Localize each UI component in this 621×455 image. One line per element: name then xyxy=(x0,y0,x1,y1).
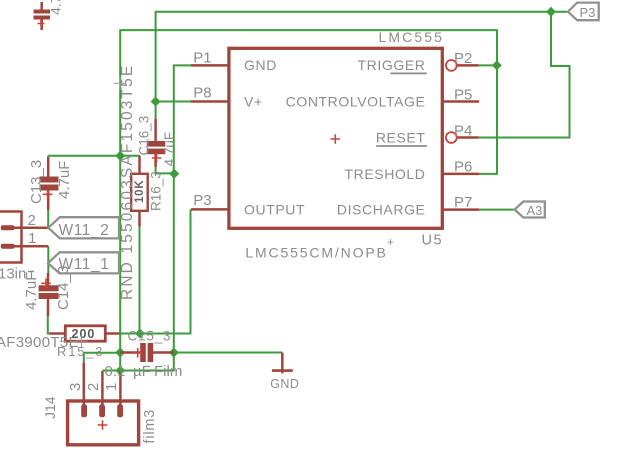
svg-text:4.7uF: 4.7uF xyxy=(56,161,73,199)
svg-text:1: 1 xyxy=(28,230,36,247)
svg-text:LMC555: LMC555 xyxy=(379,29,445,45)
svg-text:A3: A3 xyxy=(527,203,543,218)
svg-text:200: 200 xyxy=(72,327,96,341)
svg-text:P5: P5 xyxy=(454,87,472,104)
svg-text:film3: film3 xyxy=(142,409,158,444)
svg-text:4.7uF: 4.7uF xyxy=(162,132,177,167)
svg-text:OUTPUT: OUTPUT xyxy=(244,202,305,218)
svg-text:P2: P2 xyxy=(454,50,472,67)
svg-text:0.1µFFilm: 0.1µFFilm xyxy=(105,363,183,380)
svg-text:10K: 10K xyxy=(134,180,146,204)
svg-text:P8: P8 xyxy=(193,85,211,102)
svg-text:C15_3: C15_3 xyxy=(128,329,172,344)
svg-text:CONTROLVOLTAGE: CONTROLVOLTAGE xyxy=(286,94,426,110)
svg-text:+: + xyxy=(387,237,394,249)
svg-text:DISCHARGE: DISCHARGE xyxy=(337,202,426,218)
svg-text:C14_3: C14_3 xyxy=(55,266,72,310)
svg-text:P6: P6 xyxy=(454,159,472,176)
svg-text:P3: P3 xyxy=(193,192,211,209)
svg-text:LMC555CM/NOPB: LMC555CM/NOPB xyxy=(245,245,387,261)
svg-text:V+: V+ xyxy=(244,94,263,110)
svg-text:P3: P3 xyxy=(580,5,596,20)
svg-text:P7: P7 xyxy=(454,194,472,211)
svg-text:GND: GND xyxy=(244,57,277,73)
svg-text:R15_3: R15_3 xyxy=(57,344,104,359)
svg-text:W11_2: W11_2 xyxy=(59,222,110,239)
svg-text:2: 2 xyxy=(28,212,36,229)
svg-text:1: 1 xyxy=(103,383,120,391)
svg-text:U5: U5 xyxy=(422,233,444,249)
svg-text:C16_3: C16_3 xyxy=(137,116,152,156)
svg-text:C13_3: C13_3 xyxy=(28,160,45,204)
svg-text:P4: P4 xyxy=(454,123,472,140)
svg-text:3: 3 xyxy=(67,383,84,391)
svg-text:4.7uF: 4.7uF xyxy=(48,0,64,15)
svg-text:4.7uF: 4.7uF xyxy=(23,272,40,310)
svg-text:J14: J14 xyxy=(42,396,58,419)
svg-text:R16_3: R16_3 xyxy=(149,171,164,211)
svg-text:P1: P1 xyxy=(193,50,211,67)
svg-text:GND: GND xyxy=(270,377,299,391)
svg-text:TRIGGER: TRIGGER xyxy=(358,57,426,73)
svg-text:RESET: RESET xyxy=(376,130,426,146)
svg-text:2: 2 xyxy=(85,383,102,391)
svg-text:TRESHOLD: TRESHOLD xyxy=(344,166,425,182)
